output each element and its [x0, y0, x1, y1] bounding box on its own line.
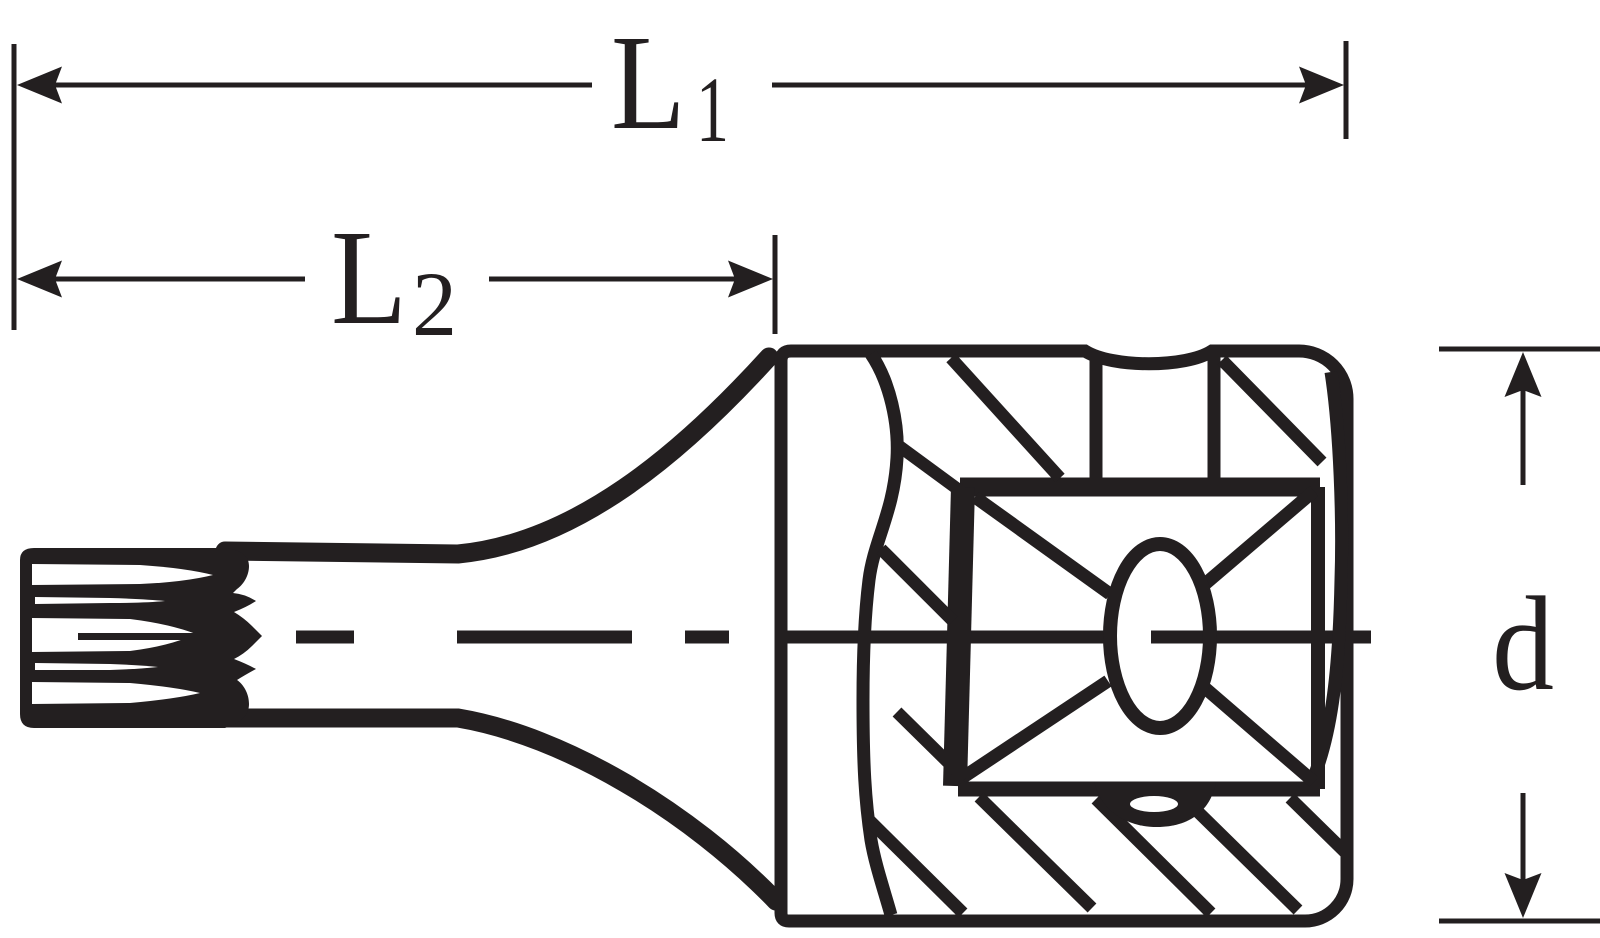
svg-text:L: L — [611, 8, 686, 158]
svg-text:L: L — [331, 203, 407, 353]
svg-text:d: d — [1492, 570, 1554, 719]
svg-text:2: 2 — [412, 253, 457, 355]
svg-text:1: 1 — [696, 59, 729, 162]
